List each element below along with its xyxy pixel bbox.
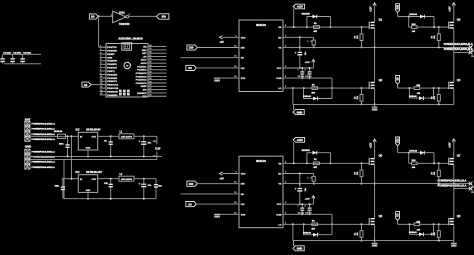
wire IC5 HO <box>283 36 314 38</box>
wire IC6 LO gate low <box>283 223 369 225</box>
net flag D9 to IC5 LIN <box>186 65 196 70</box>
arduino left pin PD1/TXD <box>99 46 106 48</box>
wire Q3 source <box>453 29 455 53</box>
svg-text:R8: R8 <box>432 233 434 235</box>
wire +12V rail Q5 <box>374 139 376 158</box>
supply arrow +12V IC6 VCC <box>312 196 314 205</box>
fuse F1 SH22,5A <box>58 134 66 138</box>
svg-text:16: 16 <box>149 91 151 93</box>
wire vbat down to IC4 <box>70 136 72 178</box>
svg-text:PB5/SCK: PB5/SCK <box>137 93 147 95</box>
IC5 pin VDD +5V supply <box>223 36 240 38</box>
wire L1 out +5V <box>134 135 157 137</box>
arduino left pin PD2/INT0 <box>99 60 106 62</box>
svg-text:GND: GND <box>372 245 378 248</box>
svg-text:COM: COM <box>276 78 281 80</box>
wire vbat to IC4 <box>62 178 79 180</box>
net flag D9 input <box>89 14 98 19</box>
svg-text:SD: SD <box>241 58 244 60</box>
phase line B IC6 <box>454 188 471 190</box>
svg-text:UA78L05-12V: UA78L05-12V <box>86 171 102 174</box>
inductor L1 ASPI-0415FS <box>119 134 134 139</box>
arduino left pin PB2/OC1B <box>99 87 106 89</box>
resistor gate 100 Q3 <box>408 17 410 28</box>
svg-text:POWERPAD4L8X01LA: POWERPAD4L8X01LA <box>32 128 56 131</box>
wire +12V rail Q3 <box>453 3 455 22</box>
resistor pulldown 10k Q1 <box>360 34 363 41</box>
svg-text:R8: R8 <box>432 97 434 99</box>
svg-text:SD: SD <box>241 194 244 196</box>
IC5 pin VSS ground <box>217 77 239 79</box>
wire IC6 VCC <box>283 203 313 205</box>
svg-text:+12V: +12V <box>297 5 303 9</box>
wire IC6 gate high <box>331 162 370 164</box>
svg-text:2: 2 <box>100 49 101 51</box>
wirepad BAT 4 <box>25 137 30 141</box>
svg-text:+5V: +5V <box>220 41 225 44</box>
svg-text:LO: LO <box>278 224 281 226</box>
svg-text:R9: R9 <box>432 172 434 174</box>
resistor R bootstrap 4R7 IC6 <box>314 162 320 165</box>
arduino right pin VIN <box>148 46 167 48</box>
wire IC5 SD <box>181 57 239 59</box>
svg-text:19: 19 <box>149 81 151 83</box>
svg-text:IC3: IC3 <box>76 129 81 132</box>
svg-text:Q5: Q5 <box>379 154 383 158</box>
wire IC5 gate high <box>331 26 370 28</box>
svg-text:13: 13 <box>100 86 102 88</box>
wirepad phase A IC5 <box>469 46 473 50</box>
wirepad BAT 3 <box>25 132 30 136</box>
gate driver IC6 IR2110 box <box>239 156 283 228</box>
capacitor IC5 vcc filter 2 <box>309 68 311 71</box>
wire IC3 out <box>98 135 119 137</box>
capacitor C9 input <box>62 179 64 187</box>
svg-text:OUT: OUT <box>92 179 97 181</box>
arduino right pin 3V3 <box>148 89 167 91</box>
arduino right pin AREF <box>148 85 167 87</box>
resistor pulldown 10k Q7 <box>437 170 440 177</box>
svg-text:1: 1 <box>297 69 298 71</box>
svg-text:PD4/XCK: PD4/XCK <box>107 67 117 70</box>
transistor Q3 high side right <box>448 22 450 29</box>
svg-text:PC4/SDA: PC4/SDA <box>137 69 147 72</box>
wire gnd down to reg2 rail <box>63 160 65 199</box>
ground symbol under Q8 <box>453 241 455 244</box>
svg-text:R9: R9 <box>432 36 434 38</box>
arduino left pin PD0/RXD <box>99 50 106 52</box>
wire Q4 drain <box>453 52 455 82</box>
wire +12V rail Q1 <box>374 3 376 22</box>
diode speedup 1N4148 IC5 low <box>303 88 305 98</box>
arduino left pin PD4/XCK <box>99 67 106 69</box>
svg-text:COM: COM <box>276 214 281 216</box>
svg-text:+12V: +12V <box>450 6 452 12</box>
wirepad phase B IC5 <box>469 51 473 55</box>
capacitor bootstrap IC6 <box>299 174 301 188</box>
wire IC6 SD <box>181 193 239 195</box>
ground symbol under Q2 <box>374 104 376 107</box>
svg-text:Q6: Q6 <box>379 214 383 218</box>
voltage regulator IC4 UA7805-12V <box>78 175 97 193</box>
inductor L2 ASPI-0415FS <box>119 176 134 181</box>
wirepad GND 3 <box>25 160 30 164</box>
IC1P power pins 74HC04 <box>156 136 158 144</box>
svg-text:HIN: HIN <box>241 184 245 186</box>
svg-text:1: 1 <box>307 177 308 179</box>
svg-text:8: 8 <box>100 69 101 71</box>
arduino left pin PD6/AIN0 <box>99 73 106 75</box>
svg-text:1N4148: 1N4148 <box>303 95 311 98</box>
wire Q8 source to ground <box>453 225 455 240</box>
svg-text:9: 9 <box>100 73 101 75</box>
phase line A IC5 <box>283 46 471 48</box>
resistor R gate low 4R7 IC5 <box>312 87 318 90</box>
arduino left pin PB1/OC1A <box>99 84 106 86</box>
svg-text:!D9: !D9 <box>162 15 167 19</box>
arduino right pin RST <box>148 52 167 54</box>
phase line A IC6 <box>283 183 471 185</box>
arduino left pin PB0/ICP1 <box>99 80 106 82</box>
wire L2 out +12V <box>134 178 156 180</box>
resistor R bootstrap 4R7 IC5 <box>314 26 320 29</box>
net flag +12V bootstrap IC6 <box>293 137 305 142</box>
svg-text:Q3: Q3 <box>457 17 461 21</box>
wirepad GND 1 <box>25 149 30 153</box>
svg-text:PB4/MISO: PB4/MISO <box>107 94 118 97</box>
svg-text:GND: GND <box>25 145 31 149</box>
capacitor C12 <box>155 179 157 185</box>
svg-text:27: 27 <box>149 55 151 57</box>
svg-text:PB1/OC1A: PB1/OC1A <box>107 84 118 87</box>
svg-text:OUT: OUT <box>92 137 97 139</box>
svg-text:28: 28 <box>149 52 151 54</box>
svg-text:C2 100n: C2 100n <box>13 52 22 54</box>
svg-text:HO: HO <box>278 37 282 39</box>
capacitor IC6 vcc filter 1 <box>301 204 303 207</box>
IC6 pin VDD +5V supply <box>223 173 240 175</box>
wire IC5 VB <box>283 26 331 28</box>
wire IC6 com to ground <box>292 224 294 240</box>
svg-text:PD5/T1: PD5/T1 <box>107 71 115 73</box>
arduino right pin +5V <box>148 56 167 58</box>
svg-text:10: 10 <box>100 76 102 78</box>
svg-text:D10: D10 <box>189 46 194 50</box>
wire Q2 drain <box>374 47 376 82</box>
svg-text:8: 8 <box>305 69 306 71</box>
svg-text:PD0/RXD: PD0/RXD <box>107 51 117 53</box>
svg-text:SB150E: SB150E <box>302 14 311 16</box>
wire IC3 gnd <box>87 150 89 156</box>
svg-text:1: 1 <box>111 14 112 16</box>
transistor Q6 low side <box>368 218 370 225</box>
wire IC5 com to ground <box>292 88 294 104</box>
arduino right pin PB5/SCK <box>148 92 167 94</box>
svg-text:POWERPAD4,8X01,8LA: POWERPAD4,8X01,8LA <box>438 183 467 187</box>
resistor pulldown 10k Q6 <box>360 231 363 238</box>
arduino left pin PD5/T1 <box>99 70 106 72</box>
svg-text:ARDUINO_NANO3: ARDUINO_NANO3 <box>118 36 143 40</box>
wirepad BAT 2 <box>25 127 30 131</box>
svg-text:A0: A0 <box>84 83 88 87</box>
svg-text:PC2/ADC2: PC2/ADC2 <box>136 75 148 78</box>
svg-text:VDD: VDD <box>241 37 246 39</box>
diode 1N4148 Q7 <box>409 152 434 154</box>
diode speedup 1N4148 IC6 low <box>303 224 305 234</box>
svg-text:1N4148: 1N4148 <box>409 149 417 152</box>
capacitor C11 electrolytic <box>143 179 145 184</box>
arduino right pin PC4/SDA <box>148 69 167 71</box>
svg-text:RST: RST <box>142 53 147 55</box>
svg-text:POWERPAD4L8X01LA: POWERPAD4L8X01LA <box>32 150 56 153</box>
net flag +12V bootstrap IC5 <box>293 4 305 9</box>
svg-text:PB3/MOSI: PB3/MOSI <box>107 91 118 93</box>
svg-text:+12V: +12V <box>305 62 311 64</box>
svg-text:+5V: +5V <box>220 177 225 180</box>
wire IC4 gnd <box>87 192 89 198</box>
svg-text:GND: GND <box>86 190 91 192</box>
arduino left pin PB4/MISO <box>99 94 106 96</box>
svg-text:8: 8 <box>305 206 306 208</box>
supply arrow +12V IC5 VCC <box>312 59 314 68</box>
wire IC6 COM <box>283 213 332 215</box>
net flag D12 to arduino <box>82 82 91 87</box>
net flag gate Q4 <box>396 75 400 84</box>
wirepad phase B IC6 <box>469 187 473 191</box>
svg-text:GND: GND <box>451 245 457 248</box>
arduino right pin PC1/ADC1 <box>148 79 167 81</box>
svg-text:PC5/SCL: PC5/SCL <box>137 66 147 68</box>
svg-text:POWERPAD4L8X01LA: POWERPAD4L8X01LA <box>32 138 56 141</box>
wirepad phase A IC6 <box>469 182 473 186</box>
svg-text:RESET: RESET <box>107 54 115 56</box>
arduino left pin PD3/INT1 <box>99 63 106 65</box>
svg-text:17: 17 <box>149 88 151 90</box>
resistor pulldown 10k Q3 <box>437 34 440 41</box>
wire BAT to fuse <box>27 135 57 137</box>
svg-text:C1 100n: C1 100n <box>3 52 12 54</box>
diode 1N4148 Q8 <box>408 224 410 234</box>
svg-text:AREF: AREF <box>141 85 148 88</box>
svg-text:2: 2 <box>311 177 312 179</box>
svg-text:VCC: VCC <box>277 68 282 70</box>
svg-text:21: 21 <box>149 75 151 77</box>
svg-text:PB2/OC1B: PB2/OC1B <box>107 88 118 90</box>
svg-text:30: 30 <box>149 45 151 47</box>
svg-text:IR2110: IR2110 <box>256 23 266 27</box>
arduino right pin D13 <box>148 95 167 97</box>
wire Q1 source <box>374 29 376 48</box>
svg-text:1N4148: 1N4148 <box>409 231 417 234</box>
svg-text:+12V: +12V <box>450 142 452 148</box>
resistor R gate low 4R7 IC6 <box>312 223 318 226</box>
wire gnd rail reg2 <box>64 198 156 200</box>
svg-text:HIN: HIN <box>241 48 245 50</box>
svg-text:1: 1 <box>297 206 298 208</box>
diode 1N4148 Q3 <box>409 16 434 18</box>
net flag D11 to IC6 HIN <box>187 181 197 186</box>
svg-text:IC4: IC4 <box>76 171 81 174</box>
wire gnd pads to IC1P <box>30 159 157 161</box>
arduino right pin PC3/ADC3 <box>148 72 167 74</box>
resistor R gate IC6 HO <box>312 176 315 181</box>
resistor pulldown 10k Q2 <box>360 95 363 102</box>
gate driver IC5 IR2110 box <box>239 20 283 92</box>
ground net flag IC6 <box>293 241 295 246</box>
svg-text:ASPI-0415FS: ASPI-0415FS <box>121 178 133 181</box>
svg-text:R3: R3 <box>354 172 356 174</box>
svg-text:UA78L05-5V: UA78L05-5V <box>86 129 101 132</box>
svg-text:GND: GND <box>297 110 303 114</box>
wire Q7 source <box>453 165 455 189</box>
wire IC5 COM <box>283 77 332 79</box>
arduino nano U1 box <box>106 44 148 98</box>
net flag gate Q8 <box>396 212 400 221</box>
svg-text:GND: GND <box>372 108 378 111</box>
arduino right pin PC2/ADC2 <box>148 75 167 77</box>
wire gnd rail reg1 <box>30 155 162 157</box>
svg-text:5: 5 <box>100 59 101 61</box>
svg-text:POWERPAD4L8X01LA: POWERPAD4L8X01LA <box>32 166 56 169</box>
phase line B IC5 <box>454 51 471 53</box>
arduino logo <box>124 62 130 68</box>
svg-text:PD7/AIN1: PD7/AIN1 <box>107 77 118 80</box>
svg-text:VSS: VSS <box>241 214 246 216</box>
svg-text:15: 15 <box>100 93 102 95</box>
capacitor bootstrap IC5 <box>299 37 301 51</box>
arduino right pin PC0/ADC0 <box>148 82 167 84</box>
svg-text:SB150E: SB150E <box>302 150 311 152</box>
svg-text:100n: 100n <box>59 143 64 145</box>
svg-text:6: 6 <box>100 63 101 65</box>
svg-text:74HC04N: 74HC04N <box>119 23 130 26</box>
resistor pulldown 10k Q8 <box>437 231 440 238</box>
arduino right pin ADC6 <box>148 62 167 64</box>
wire to arduino pin TX1 <box>98 16 100 47</box>
wire Q6 source to ground <box>374 225 376 240</box>
svg-text:26: 26 <box>149 58 151 60</box>
capacitor IC5 vcc filter 1 <box>301 68 303 71</box>
inverter IC1A <box>113 11 126 23</box>
svg-text:P$2: P$2 <box>153 141 156 143</box>
svg-text:R3: R3 <box>354 36 356 38</box>
capacitor C3 100n <box>22 54 24 58</box>
transistor Q5 high side <box>368 158 370 165</box>
svg-text:29: 29 <box>149 48 151 50</box>
wire fuse to IC3 <box>66 135 79 137</box>
svg-text:IR2110: IR2110 <box>256 159 266 163</box>
svg-text:POWERPAD4L8X01LA: POWERPAD4L8X01LA <box>32 161 56 164</box>
arduino left pin PB3/MOSI <box>99 91 106 93</box>
svg-text:POWERPAD4L8X01LA: POWERPAD4L8X01LA <box>32 123 56 126</box>
transistor Q7 high side right <box>448 158 450 165</box>
wire IC6 VB <box>283 162 331 164</box>
capacitor C6 electrolytic <box>143 136 145 141</box>
resistor gate 100 Q7 <box>408 153 410 164</box>
svg-text:POWERPAD4,8X01,8LA: POWERPAD4,8X01,8LA <box>444 42 473 46</box>
svg-text:100n: 100n <box>55 186 60 188</box>
svg-text:POWERPAD4L8X01LA: POWERPAD4L8X01LA <box>32 133 56 136</box>
wire IC5 LO gate low <box>283 87 369 89</box>
net flag D3 to IC6 LIN <box>186 202 196 207</box>
svg-text:D10: D10 <box>397 4 400 9</box>
svg-text:LIN: LIN <box>241 204 245 206</box>
wire IC4 out <box>98 178 119 180</box>
svg-text:LO: LO <box>278 88 281 90</box>
svg-text:1N4148: 1N4148 <box>303 231 311 234</box>
svg-text:HO: HO <box>278 174 282 176</box>
svg-text:D11: D11 <box>189 182 194 186</box>
wire IC6 HO <box>283 173 314 175</box>
capacitor C5 <box>110 136 112 142</box>
ground symbol under Q6 <box>374 241 376 244</box>
wire Q4 source to ground <box>453 89 455 104</box>
svg-text:+12V: +12V <box>305 198 311 200</box>
transistor Q4 low side right <box>448 82 450 89</box>
arduino right pin ADC7 <box>148 59 167 61</box>
icsp header <box>119 90 122 93</box>
wire inverter input <box>98 15 113 17</box>
wire gnd pads join <box>26 151 28 167</box>
diode D bootstrap SB150E IC6 <box>306 153 308 164</box>
svg-text:15: 15 <box>149 95 151 97</box>
resistor gate 100 Q8 <box>414 223 420 226</box>
net flag D10 to IC5 HIN <box>187 45 197 50</box>
svg-text:D9: D9 <box>188 66 192 70</box>
svg-text:PC0/ADC0: PC0/ADC0 <box>136 82 148 85</box>
svg-text:VCC: VCC <box>277 204 282 206</box>
wirepad GND 4 <box>25 165 30 169</box>
svg-text:PD1/TXD: PD1/TXD <box>107 47 117 49</box>
resistor gate 100 Q4 <box>414 87 420 90</box>
svg-text:VDD: VDD <box>241 174 246 176</box>
svg-text:SH22,5A: SH22,5A <box>54 130 63 133</box>
svg-text:D3: D3 <box>188 202 192 206</box>
diode D bootstrap SB150E IC5 <box>306 17 308 28</box>
svg-text:20: 20 <box>149 78 151 80</box>
svg-text:1: 1 <box>100 46 101 48</box>
ground net flag IC5 <box>293 104 295 109</box>
svg-text:GND: GND <box>107 57 112 59</box>
capacitor C2 100n <box>12 54 14 58</box>
net flag D9 inverted output <box>157 14 169 19</box>
svg-text:22: 22 <box>149 71 151 73</box>
wire IC5 VCC <box>283 67 313 69</box>
svg-text:IC1A: IC1A <box>119 12 125 15</box>
svg-text:GND: GND <box>86 147 91 149</box>
wire +12V rail Q7 <box>453 139 455 158</box>
svg-text:PC1/ADC1: PC1/ADC1 <box>136 79 148 82</box>
wirepad GND 2 <box>25 154 30 158</box>
svg-text:18: 18 <box>149 85 151 87</box>
transistor Q8 low side right <box>448 218 450 225</box>
arduino left pin GND <box>99 56 106 58</box>
svg-text:ADC6: ADC6 <box>141 62 148 65</box>
svg-text:+12V: +12V <box>297 138 303 142</box>
svg-text:GND: GND <box>142 50 147 52</box>
capacitor IC6 vcc filter 2 <box>309 204 311 207</box>
svg-text:23: 23 <box>149 68 151 70</box>
wire +5V rail <box>3 53 41 55</box>
svg-text:ADC7: ADC7 <box>141 59 148 62</box>
svg-text:2: 2 <box>129 14 130 16</box>
svg-text:ASPI-0415FS: ASPI-0415FS <box>121 136 133 139</box>
svg-text:PD3/INT1: PD3/INT1 <box>107 64 117 66</box>
capacitor C1 100n <box>2 54 4 58</box>
svg-text:+12V: +12V <box>370 6 372 12</box>
svg-text:GND: GND <box>214 79 220 82</box>
svg-text:C3 100n: C3 100n <box>23 52 32 54</box>
